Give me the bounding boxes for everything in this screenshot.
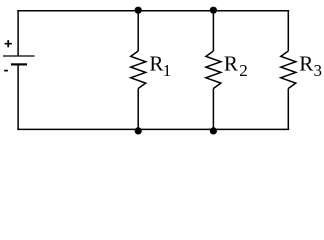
- wire right R3 branch top: [287, 11, 289, 51]
- wire R1 branch top: [137, 11, 139, 51]
- wire left battery top lead: [17, 11, 19, 56]
- battery V1 short plate (-): [11, 63, 27, 65]
- node junction top R1: [135, 7, 142, 14]
- svg-text:2: 2: [239, 61, 248, 80]
- wire R2 branch top: [212, 11, 214, 51]
- wire top rail: [17, 10, 289, 12]
- node junction bottom R2: [210, 127, 217, 134]
- resistor R3: [281, 51, 296, 89]
- resistor R2: [206, 51, 221, 89]
- svg-text:1: 1: [163, 61, 172, 80]
- wire bottom rail: [17, 128, 289, 130]
- node junction top R2: [210, 7, 217, 14]
- resistor R1: [131, 51, 146, 89]
- svg-text:R: R: [299, 52, 313, 76]
- battery - polarity mark: [4, 70, 8, 72]
- node junction bottom R1: [135, 127, 142, 134]
- wire right R3 branch bottom: [287, 89, 289, 130]
- svg-text:R: R: [149, 52, 163, 76]
- wire left battery bottom lead: [17, 66, 19, 130]
- wire R1 branch bottom: [137, 89, 139, 130]
- battery V1 long plate (+): [3, 55, 35, 57]
- wire R2 branch bottom: [212, 89, 214, 130]
- svg-text:3: 3: [314, 61, 323, 80]
- svg-text:R: R: [224, 52, 238, 76]
- battery + polarity mark: [5, 40, 12, 47]
